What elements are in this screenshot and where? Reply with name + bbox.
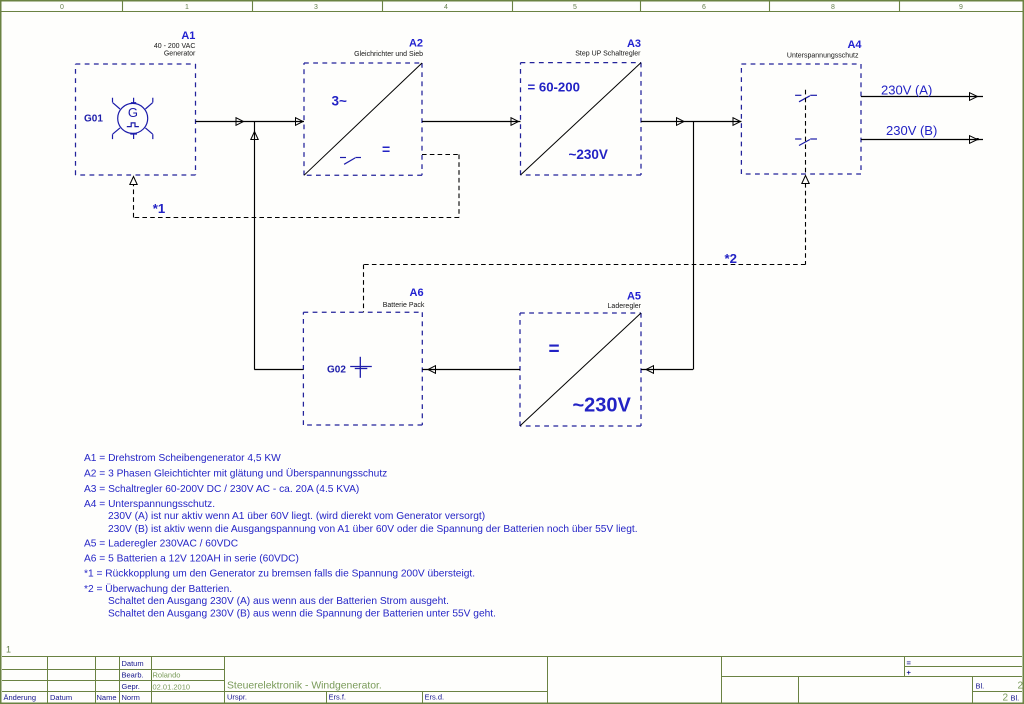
svg-text:A2: A2 <box>409 38 423 50</box>
block A6 box <box>303 312 422 425</box>
arrow before A3 <box>511 118 519 126</box>
arrow 230V A <box>970 93 978 101</box>
TITLE BLOCK LINES <box>2 657 1022 704</box>
svg-text:Schaltet den Ausgang 230V (B): Schaltet den Ausgang 230V (B) aus wenn d… <box>108 609 496 620</box>
svg-text:A4: A4 <box>847 39 862 51</box>
arrow 230V B <box>970 136 978 144</box>
arrow *2 into A4 <box>802 176 809 184</box>
svg-text:1: 1 <box>185 4 189 11</box>
svg-text:Gepr.: Gepr. <box>122 682 140 691</box>
svg-text:Bl.: Bl. <box>1011 693 1020 702</box>
wire J1 to A6 <box>254 369 303 371</box>
arrow *1 into A1 <box>130 177 137 185</box>
arrow before A2 <box>296 118 304 126</box>
svg-text:G01: G01 <box>84 113 103 124</box>
wire A1 to A2 <box>196 121 305 123</box>
svg-text:Schaltet den Ausgang 230V (A): Schaltet den Ausgang 230V (A) aus wenn a… <box>108 596 449 607</box>
svg-text:02.01.2010: 02.01.2010 <box>153 683 191 692</box>
svg-text:Ers.d.: Ers.d. <box>425 692 445 701</box>
svg-text:A6: A6 <box>410 287 424 299</box>
svg-text:= 60-200: = 60-200 <box>528 80 580 95</box>
svg-text:230V (A): 230V (A) <box>881 82 932 97</box>
svg-text:2: 2 <box>1002 692 1008 703</box>
svg-text:*2 = Überwachung der Batterien: *2 = Überwachung der Batterien. <box>84 583 232 595</box>
svg-text:=: = <box>907 659 912 668</box>
svg-text:9: 9 <box>959 4 963 11</box>
title block green values <box>153 670 191 691</box>
block A4 box <box>741 64 861 174</box>
svg-text:~230V: ~230V <box>569 147 608 162</box>
svg-text:+: + <box>907 668 912 677</box>
svg-text:4: 4 <box>444 4 448 11</box>
svg-text:5: 5 <box>573 4 577 11</box>
arrow before A4 <box>733 118 741 126</box>
svg-text:=: = <box>549 339 560 360</box>
svg-text:Generator: Generator <box>164 51 196 58</box>
svg-text:2: 2 <box>1017 681 1023 692</box>
wire A2 to A3 <box>422 121 521 123</box>
svg-text:6: 6 <box>702 4 706 11</box>
arrow into A6 <box>428 366 436 374</box>
block A1 box <box>76 64 196 175</box>
block A2 box <box>304 63 422 175</box>
svg-text:A5: A5 <box>627 290 641 302</box>
A3 diagonal <box>521 63 642 175</box>
A4 internal control dashed link <box>805 90 807 174</box>
svg-text:Datum: Datum <box>50 693 72 702</box>
svg-text:3: 3 <box>314 4 318 11</box>
svg-text:8: 8 <box>831 4 835 11</box>
block A5 box <box>520 313 641 426</box>
svg-text:0: 0 <box>60 4 64 11</box>
arrow on wire A1-A2 <box>236 118 244 126</box>
svg-text:Batterie Pack: Batterie Pack <box>383 302 425 309</box>
notes text <box>84 453 638 620</box>
svg-text:~230V: ~230V <box>573 395 632 417</box>
arrow into A5 <box>646 366 654 374</box>
svg-text:A3: A3 <box>627 38 641 50</box>
svg-text:Gleichrichter und Sieb: Gleichrichter und Sieb <box>354 51 423 58</box>
node dot on 230V B <box>977 138 979 140</box>
svg-text:230V (A) ist nur aktiv wenn A1: 230V (A) ist nur aktiv wenn A1 über 60V … <box>108 511 485 522</box>
svg-text:Norm: Norm <box>122 693 140 702</box>
svg-text:Datum: Datum <box>122 659 144 668</box>
svg-text:230V (B): 230V (B) <box>886 123 937 138</box>
svg-text:Ers.f.: Ers.f. <box>329 692 347 701</box>
svg-text:Name: Name <box>97 693 117 702</box>
arrow after A3 <box>677 118 685 126</box>
node J2 vertical wire <box>693 122 695 370</box>
wire 230V A <box>861 96 983 98</box>
svg-text:Bl.: Bl. <box>976 681 985 690</box>
svg-text:A1: A1 <box>181 30 195 42</box>
svg-text:*1 = Rückkopplung um den Gener: *1 = Rückkopplung um den Generator zu br… <box>84 569 475 580</box>
svg-text:40 - 200 VAC: 40 - 200 VAC <box>154 43 196 50</box>
svg-text:Steuerelektronik - Windgenerat: Steuerelektronik - Windgenerator. <box>227 681 382 692</box>
A2 switch contact <box>340 158 361 165</box>
A4 switch S1 <box>795 95 817 102</box>
svg-text:Unterspannungsschutz: Unterspannungsschutz <box>787 53 859 60</box>
title block labels <box>4 659 1020 703</box>
svg-text:G02: G02 <box>327 364 346 375</box>
wire A3 to A4 <box>641 121 741 123</box>
feedback *1 dashed path <box>134 155 460 218</box>
wire A5 to A6 <box>422 369 520 371</box>
svg-text:Bearb.: Bearb. <box>122 671 144 680</box>
block A3 box <box>521 63 642 175</box>
svg-text:Urspr.: Urspr. <box>227 692 247 701</box>
generator G01 symbol <box>113 98 153 139</box>
monitoring *2 dashed path <box>364 183 806 312</box>
up arrow under node J1 <box>251 132 258 140</box>
svg-text:Step UP Schaltregler: Step UP Schaltregler <box>575 50 641 57</box>
svg-text:1: 1 <box>6 644 11 654</box>
svg-text:A2 = 3 Phasen Gleichtichter mi: A2 = 3 Phasen Gleichtichter mit glätung … <box>84 468 387 480</box>
svg-text:G: G <box>128 105 138 120</box>
A5 diagonal <box>520 313 641 426</box>
svg-text:A6 = 5 Batterien a 12V 120AH i: A6 = 5 Batterien a 12V 120AH in serie (6… <box>84 554 299 565</box>
svg-text:Laderegler: Laderegler <box>608 303 642 310</box>
wire 230V B <box>861 139 983 141</box>
svg-text:Änderung: Änderung <box>4 693 37 702</box>
node J1 vertical wire <box>254 122 256 370</box>
svg-text:*1: *1 <box>153 201 165 216</box>
svg-text:A5 = Laderegler 230VAC / 60VDC: A5 = Laderegler 230VAC / 60VDC <box>84 539 238 550</box>
svg-text:Rolando: Rolando <box>153 670 181 679</box>
svg-text:3~: 3~ <box>332 93 348 108</box>
svg-text:=: = <box>382 141 390 157</box>
wire J2 to A5 <box>641 369 693 371</box>
A4 switch S2 <box>795 139 817 146</box>
svg-text:*2: *2 <box>725 251 737 266</box>
svg-text:230V (B) ist aktiv wenn die Au: 230V (B) ist aktiv wenn die Ausgangspann… <box>108 524 638 535</box>
battery G02 symbol <box>350 357 372 378</box>
A2 diagonal <box>304 63 422 175</box>
svg-text:A3 = Schaltregler 60-200V DC /: A3 = Schaltregler 60-200V DC / 230V AC -… <box>84 484 359 495</box>
svg-text:A1 = Drehstrom Scheibengenerat: A1 = Drehstrom Scheibengenerator 4,5 KW <box>84 453 281 464</box>
svg-text:A4 = Unterspannungsschutz.: A4 = Unterspannungsschutz. <box>84 499 215 510</box>
